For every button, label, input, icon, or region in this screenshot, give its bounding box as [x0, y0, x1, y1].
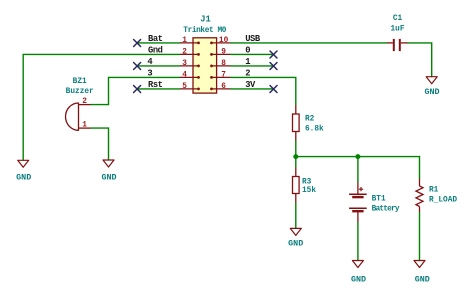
svg-text:R1: R1	[429, 186, 439, 194]
svg-text:2: 2	[245, 69, 250, 79]
svg-text:15k: 15k	[302, 187, 316, 195]
svg-text:GND: GND	[288, 239, 303, 249]
svg-text:Buzzer: Buzzer	[66, 88, 94, 96]
svg-text:3V: 3V	[245, 80, 256, 90]
svg-text:Gnd: Gnd	[148, 46, 163, 56]
svg-text:R_LOAD: R_LOAD	[429, 197, 457, 205]
svg-text:J1: J1	[200, 15, 211, 25]
svg-text:10: 10	[219, 37, 229, 45]
svg-text:7: 7	[221, 71, 226, 79]
svg-text:GND: GND	[424, 87, 439, 97]
svg-text:BT1: BT1	[372, 196, 386, 204]
svg-text:R3: R3	[302, 179, 312, 187]
svg-text:1: 1	[182, 37, 187, 45]
svg-text:1uF: 1uF	[390, 26, 404, 34]
svg-text:R2: R2	[305, 116, 315, 124]
svg-text:Battery: Battery	[372, 206, 400, 214]
svg-text:2: 2	[182, 48, 187, 56]
svg-text:0: 0	[245, 46, 250, 56]
svg-text:BZ1: BZ1	[73, 78, 87, 86]
svg-text:1: 1	[245, 57, 250, 67]
svg-text:3: 3	[147, 69, 152, 79]
svg-text:6: 6	[221, 83, 226, 91]
svg-text:1: 1	[82, 122, 87, 130]
svg-text:3: 3	[182, 60, 187, 68]
svg-text:USB: USB	[245, 34, 261, 44]
svg-text:GND: GND	[415, 275, 430, 285]
svg-text:6.8k: 6.8k	[305, 125, 324, 133]
svg-text:5: 5	[182, 83, 187, 91]
svg-text:GND: GND	[101, 173, 116, 183]
svg-text:8: 8	[221, 60, 226, 68]
svg-text:4: 4	[182, 71, 187, 79]
svg-text:C1: C1	[393, 15, 403, 23]
svg-text:Trinket M0: Trinket M0	[183, 27, 227, 35]
svg-text:2: 2	[82, 98, 87, 106]
svg-text:Rst: Rst	[148, 80, 163, 90]
svg-text:GND: GND	[16, 173, 31, 183]
svg-text:Bat: Bat	[148, 34, 163, 44]
svg-text:GND: GND	[351, 275, 366, 285]
svg-text:9: 9	[221, 48, 226, 56]
